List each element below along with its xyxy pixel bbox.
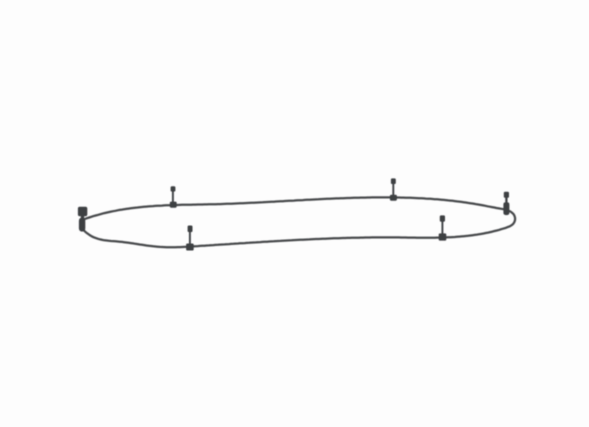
- mist nozzle lower-left: [186, 226, 194, 251]
- tubing loop: [80, 197, 515, 247]
- mist nozzle upper-left: [170, 186, 177, 207]
- mist nozzle upper-right: [390, 178, 397, 200]
- left end nozzle connector: [78, 207, 87, 232]
- right inlet connector: [503, 192, 509, 215]
- mist nozzle lower-right: [439, 215, 447, 240]
